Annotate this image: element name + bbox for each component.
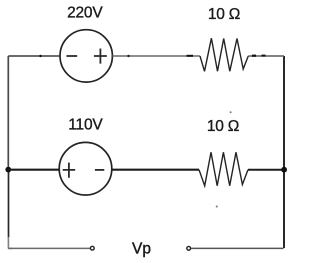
wire: top branch middle segment [112,55,200,57]
wire: top branch left segment [8,55,60,57]
minus sign of 110V source [95,169,104,171]
speck on top wire near resistor entry [187,55,194,57]
speck (scan noise) near middle 10 ohm label [230,111,232,113]
voltage source 220V circle [60,30,112,82]
wire: middle branch right segment [248,169,284,171]
svg-text:Vp: Vp [132,241,151,258]
wire: middle branch left segment [8,169,59,171]
minus sign of 220V source [67,55,78,57]
svg-text:220V: 220V [67,5,103,22]
terminal: right open circle [187,246,191,250]
plus sign of 110V source [63,163,75,178]
terminal: left open circle [90,246,94,250]
speck (scan noise) below middle resistor [216,205,218,207]
voltage source 110V circle [59,142,112,195]
resistor 10 ohm middle zigzag [199,152,248,186]
speck on top wire near right corner [262,55,266,57]
wire: middle branch middle segment [112,169,199,171]
svg-text:10 Ω: 10 Ω [207,118,239,135]
node: right junction dot [281,167,287,173]
wire: left vertical [7,56,9,169]
resistor 10 ohm top zigzag [200,38,248,71]
speck on top wire right of resistor [252,55,256,57]
wire: bottom right segment [191,247,284,249]
svg-text:10 Ω: 10 Ω [208,6,240,23]
wire: top branch right segment [248,55,284,57]
node: left junction dot [5,167,11,173]
speck on top-middle wire [127,55,129,57]
wire: right vertical [283,56,285,248]
plus sign of 220V source [94,49,107,64]
wire: bottom left segment [8,247,90,249]
speck on top-left wire [39,55,41,57]
svg-text:110V: 110V [68,116,103,133]
